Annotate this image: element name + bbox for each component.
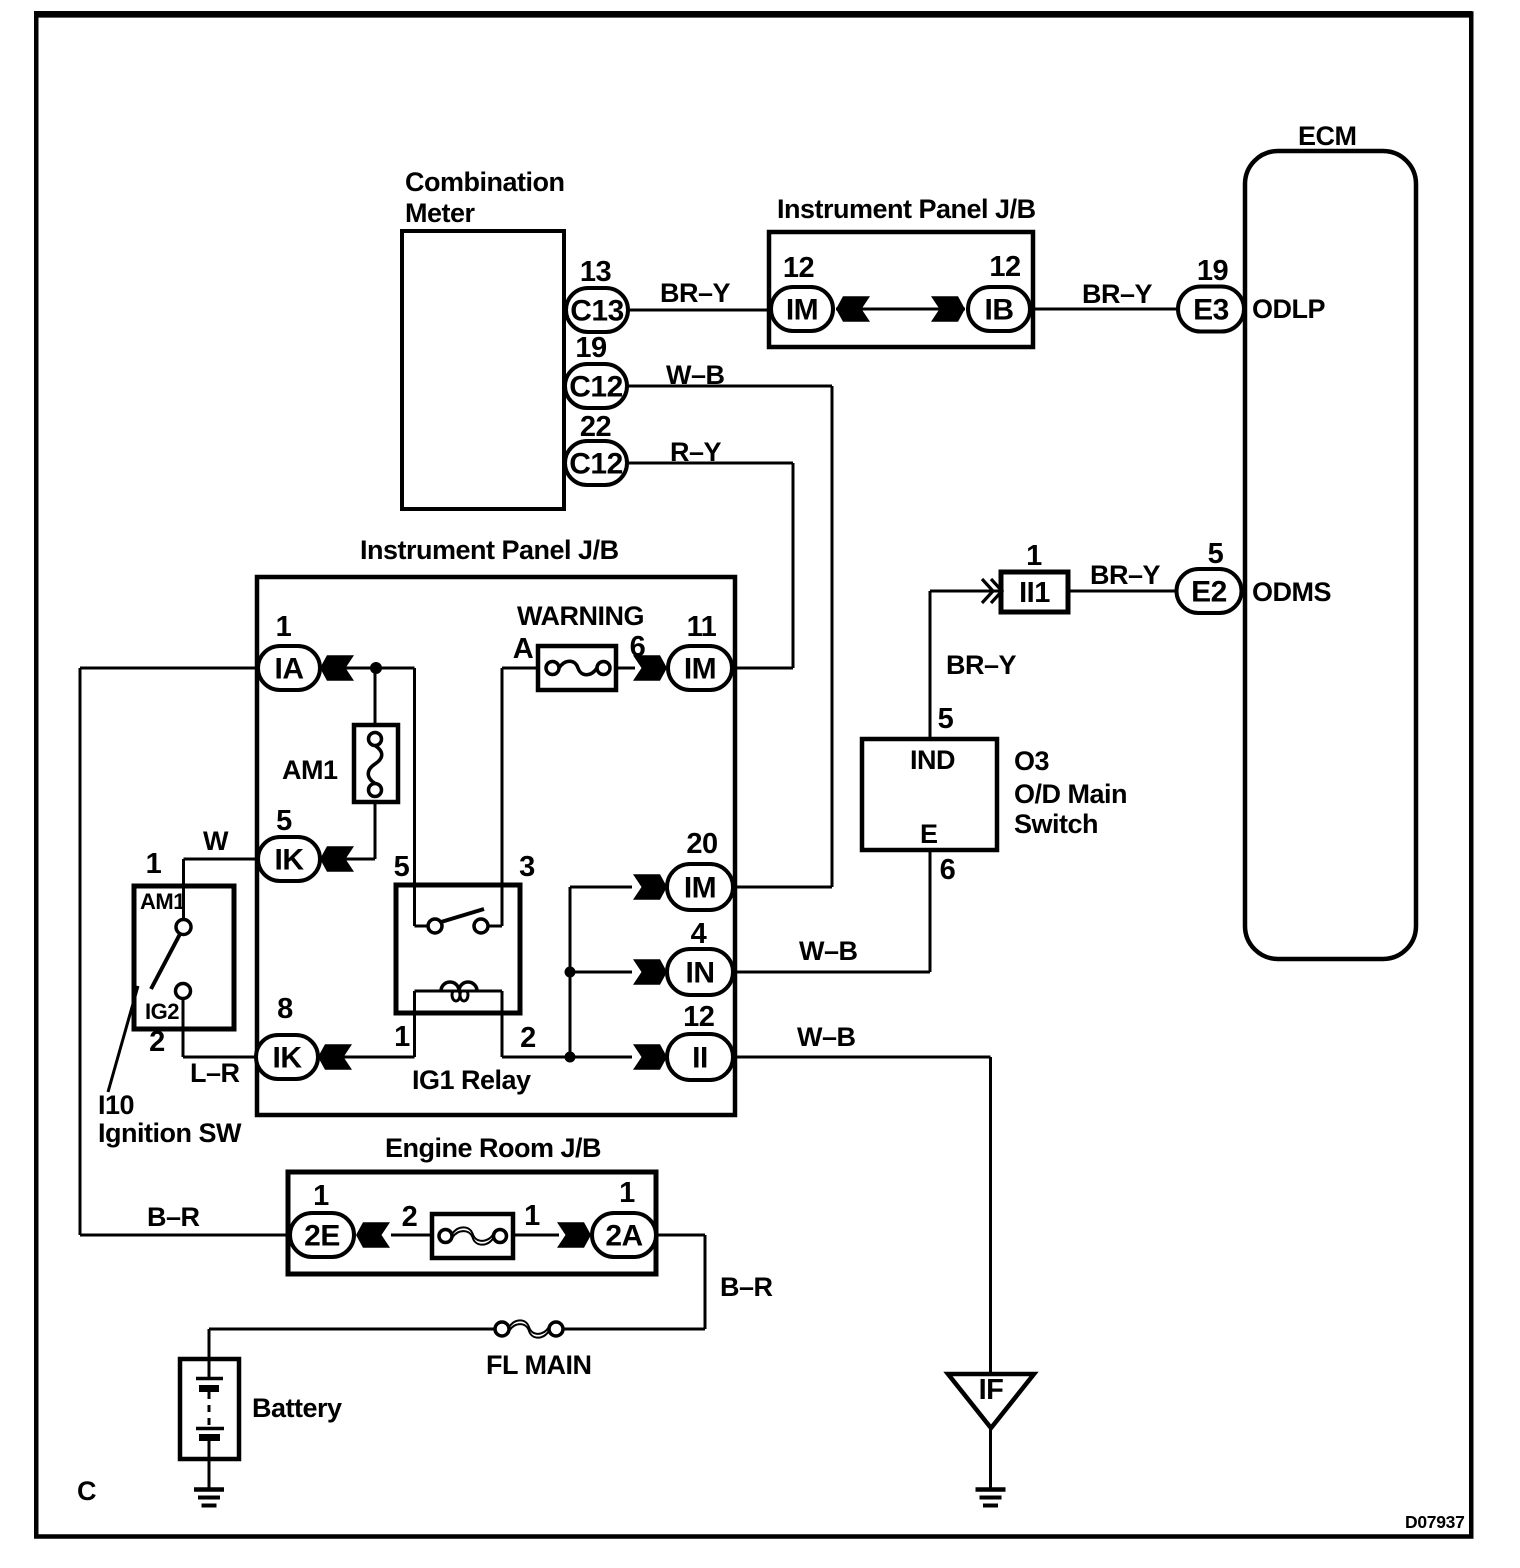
svg-text:WARNING: WARNING — [517, 601, 644, 631]
svg-text:IB: IB — [985, 294, 1014, 327]
svg-text:E3: E3 — [1193, 294, 1229, 327]
svg-text:C13: C13 — [570, 295, 624, 328]
svg-text:II: II — [692, 1042, 708, 1075]
svg-text:IK: IK — [273, 1042, 303, 1075]
svg-text:6: 6 — [630, 631, 646, 663]
svg-text:1: 1 — [276, 611, 292, 643]
svg-text:II1: II1 — [1019, 577, 1050, 609]
svg-text:5: 5 — [938, 703, 954, 735]
svg-text:ODMS: ODMS — [1252, 577, 1331, 607]
svg-text:19: 19 — [575, 332, 607, 364]
svg-text:IK: IK — [275, 844, 305, 877]
svg-text:IND: IND — [910, 745, 955, 775]
svg-text:ECM: ECM — [1298, 121, 1357, 151]
svg-text:IG1 Relay: IG1 Relay — [412, 1065, 531, 1095]
svg-text:BR–Y: BR–Y — [946, 650, 1017, 680]
svg-text:W–B: W–B — [797, 1022, 856, 1052]
svg-text:Battery: Battery — [252, 1393, 342, 1423]
svg-text:Instrument Panel J/B: Instrument Panel J/B — [777, 194, 1036, 224]
svg-text:C12: C12 — [569, 371, 623, 404]
svg-text:B–R: B–R — [147, 1202, 200, 1232]
svg-text:12: 12 — [683, 1001, 714, 1033]
svg-text:I10: I10 — [98, 1090, 134, 1120]
svg-text:5: 5 — [394, 851, 410, 883]
svg-text:L–R: L–R — [190, 1058, 240, 1088]
svg-text:IA: IA — [275, 653, 304, 686]
svg-text:20: 20 — [686, 828, 717, 860]
svg-text:W: W — [203, 826, 229, 856]
svg-text:FL MAIN: FL MAIN — [486, 1350, 592, 1380]
svg-text:Combination: Combination — [405, 167, 564, 197]
svg-text:12: 12 — [989, 251, 1020, 283]
svg-text:BR–Y: BR–Y — [1082, 279, 1153, 309]
svg-text:2: 2 — [149, 1026, 165, 1058]
svg-text:C12: C12 — [569, 448, 623, 481]
svg-text:B–R: B–R — [720, 1272, 773, 1302]
svg-text:W–B: W–B — [799, 936, 858, 966]
svg-text:13: 13 — [580, 256, 612, 288]
svg-text:1: 1 — [394, 1021, 410, 1053]
svg-text:C: C — [77, 1476, 96, 1506]
svg-text:R–Y: R–Y — [670, 437, 722, 467]
svg-text:Switch: Switch — [1014, 809, 1098, 839]
svg-text:IF: IF — [979, 1374, 1004, 1406]
svg-text:D07937: D07937 — [1405, 1512, 1465, 1532]
svg-text:BR–Y: BR–Y — [660, 278, 731, 308]
svg-text:AM1: AM1 — [282, 755, 338, 785]
svg-text:1: 1 — [1026, 540, 1042, 572]
svg-text:2E: 2E — [304, 1220, 340, 1253]
svg-text:IM: IM — [786, 294, 818, 327]
svg-text:2: 2 — [402, 1201, 418, 1233]
svg-text:5: 5 — [1208, 538, 1224, 570]
svg-text:6: 6 — [940, 854, 956, 886]
svg-text:Engine Room J/B: Engine Room J/B — [385, 1133, 601, 1163]
svg-text:Meter: Meter — [405, 198, 476, 228]
svg-text:BR–Y: BR–Y — [1090, 560, 1161, 590]
svg-text:Instrument Panel J/B: Instrument Panel J/B — [360, 535, 619, 565]
svg-text:5: 5 — [276, 805, 292, 837]
svg-text:4: 4 — [691, 918, 707, 950]
svg-text:11: 11 — [687, 611, 717, 643]
svg-text:A: A — [513, 633, 534, 665]
svg-text:IG2: IG2 — [145, 999, 179, 1024]
svg-text:IM: IM — [684, 872, 716, 905]
svg-text:ODLP: ODLP — [1252, 294, 1325, 324]
svg-text:E2: E2 — [1191, 576, 1227, 609]
svg-text:1: 1 — [524, 1200, 540, 1232]
svg-text:1: 1 — [313, 1180, 329, 1212]
svg-text:19: 19 — [1197, 255, 1229, 287]
svg-text:IM: IM — [684, 653, 716, 686]
svg-text:O3: O3 — [1014, 746, 1050, 776]
svg-text:W–B: W–B — [666, 360, 725, 390]
svg-text:Ignition SW: Ignition SW — [98, 1118, 242, 1148]
svg-text:O/D Main: O/D Main — [1014, 779, 1127, 809]
svg-text:2A: 2A — [605, 1220, 642, 1253]
svg-text:AM1: AM1 — [140, 889, 185, 914]
svg-text:E: E — [920, 819, 938, 849]
svg-text:2: 2 — [520, 1022, 536, 1054]
svg-text:IN: IN — [686, 957, 715, 990]
svg-text:8: 8 — [277, 993, 293, 1025]
svg-text:22: 22 — [580, 411, 611, 443]
svg-text:12: 12 — [783, 252, 814, 284]
svg-text:1: 1 — [619, 1177, 635, 1209]
svg-text:3: 3 — [519, 851, 535, 883]
svg-text:1: 1 — [146, 848, 162, 880]
